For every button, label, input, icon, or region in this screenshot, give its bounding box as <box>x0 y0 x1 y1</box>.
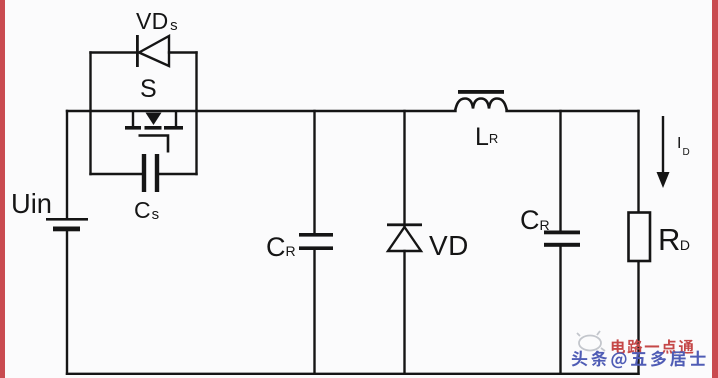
wire main top bus right part <box>507 110 639 112</box>
pin source drop <box>175 111 177 127</box>
wire right rail upper <box>637 111 639 213</box>
wire CR1 branch upper <box>313 111 315 233</box>
wire left rail upper (Uin branch) <box>66 111 68 219</box>
wire snubber right rail <box>195 53 197 175</box>
voltage source Uin (battery) <box>46 218 88 231</box>
contact bar right <box>164 126 183 130</box>
resistor RD <box>629 213 651 262</box>
red right edge bar <box>712 0 718 378</box>
wire snubber bottom right segment <box>159 173 197 175</box>
diode VDs <box>136 35 169 67</box>
capacitor CR2 <box>544 231 580 247</box>
wire CR2 branch upper <box>559 111 561 231</box>
wire snubber bottom left segment <box>91 173 143 175</box>
svg-text:Uin: Uin <box>11 188 52 219</box>
core bar <box>458 90 504 94</box>
contact bar middle <box>145 126 162 130</box>
wire CR2 branch lower <box>559 247 561 374</box>
capacitor CR1 <box>299 233 333 250</box>
watermark line 1 <box>612 339 694 354</box>
gate line <box>139 136 169 153</box>
current arrow Io <box>657 116 670 188</box>
wire CR1 branch lower <box>313 250 315 374</box>
wire right rail lower <box>637 261 639 374</box>
watermark doodle <box>577 331 605 351</box>
transistor S (MOSFET) <box>125 111 183 153</box>
red left edge bar <box>0 0 5 378</box>
contact bar left <box>125 126 141 130</box>
diode VD <box>387 223 422 251</box>
wire snubber left rail <box>89 53 91 175</box>
pin drain drop <box>132 111 134 127</box>
wire main top bus left part <box>67 110 456 112</box>
wire VD branch upper <box>403 111 405 227</box>
watermark line 2 <box>572 350 706 368</box>
wire VD branch lower <box>403 251 405 374</box>
wire bottom rail <box>67 373 639 375</box>
capacitor Cs <box>142 154 159 192</box>
wire snubber top right segment <box>169 51 197 53</box>
wire left rail lower <box>66 231 68 374</box>
svg-text:VD: VD <box>429 230 469 261</box>
inductor LR <box>455 90 507 111</box>
wire snubber top left segment <box>91 51 137 53</box>
substrate arrow <box>146 113 162 125</box>
winding humps <box>455 99 507 112</box>
svg-text:S: S <box>140 75 157 103</box>
